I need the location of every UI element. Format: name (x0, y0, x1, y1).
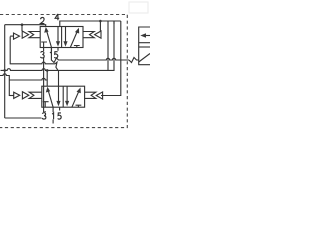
supply unit lever diagonal (139, 54, 150, 63)
wire left vertical L1 (4, 25, 6, 118)
port stubs valve V2 bottom (53, 107, 60, 110)
wire line C2 to valve2 left pilot y=75.5 (0, 74, 14, 96)
valve V2 right box diagonal arrow (72, 91, 79, 107)
node A junction dot (21, 23, 24, 26)
port label 2 valve V1 (40, 17, 44, 23)
wire line E bottom-left y=118 (5, 111, 45, 118)
wire V3 right drop to valve2 right pilot (101, 21, 121, 96)
port labels 3 1 5 valve V1 (40, 51, 57, 58)
faint ghost rectangle top right (129, 2, 148, 13)
valve V1 right box diagonal arrow (70, 31, 77, 47)
wire into valve V2 left pilot (9, 95, 13, 97)
wire riser valve2 port2 (46, 70, 48, 86)
wire into left pilot arrow (10, 35, 13, 37)
valve V1 right pilot flag (83, 32, 94, 38)
valve V1 blocked port 3 (41, 42, 47, 48)
wire valve V2 port1 stub down (52, 111, 54, 124)
valve V1 left pilot flag (29, 32, 40, 38)
wire valve1 exhaust port3 drop (43, 48, 45, 119)
wire V2 riser part of line C corner (113, 21, 115, 24)
wire V1 riser (107, 21, 109, 70)
wire line D branch to valve2 port2 node y=80 (9, 78, 47, 80)
valve V2 pilot line end arrow left (14, 92, 20, 98)
node C junction dot on line C riser (46, 69, 49, 72)
valve V2 body 5/2 (42, 86, 85, 107)
wire from node D down to valve1 right pilot (99, 21, 101, 31)
supply unit left arrow (144, 35, 150, 37)
valve V2 right box blocked port (76, 105, 82, 107)
wire stub from node A down to valve1 left pilot (21, 25, 23, 31)
valve V2 flow path 4-5 arrow (58, 86, 60, 102)
node B junction dot on line C (3, 69, 6, 72)
valve V2 left pilot flag (29, 92, 42, 98)
port labels 3 1 5 valve V2 (42, 113, 61, 120)
line break mark on line A (129, 58, 139, 63)
supply unit box right edge (139, 27, 150, 65)
valve V1 pilot line end arrow left (14, 33, 20, 39)
dashed enclosure border (0, 15, 127, 128)
node D junction dot on top bus (99, 20, 102, 23)
wire top bus y=21 from valve1 port4 (60, 21, 121, 27)
wire line A supply y=60 (51, 48, 129, 63)
valve V2 flow path 1-2 arrow (48, 91, 53, 108)
wire port2 v1 top-left bus y=24.7 (5, 25, 46, 27)
wire line C mid bus y=70.4 (1, 21, 115, 70)
valve V2 blocked port 3 (43, 102, 49, 108)
valve V1 left pilot triangle (22, 31, 28, 38)
port stubs valve V1 bottom (52, 48, 59, 51)
valve V1 body 5/2 (40, 27, 83, 48)
valve V1 right box blocked port (74, 46, 80, 48)
wire riser valve2 port4 (58, 70, 60, 86)
valve V1 right pilot triangle (95, 31, 101, 38)
valve V2 left pilot triangle (22, 92, 28, 99)
wire line B valve1 left pilot feed y=63.8 (10, 37, 58, 71)
valve V2 right pilot flag (85, 92, 96, 98)
port label 4 valve V1 (55, 14, 59, 20)
valve V1 flow path 4-5 arrow (57, 27, 59, 43)
valve V2 right box down arrow (66, 86, 68, 102)
valve V2 right pilot triangle (96, 92, 102, 99)
label mask valve V2 (42, 112, 63, 119)
label mask valve V1 (40, 51, 60, 58)
valve V1 right box down arrow (65, 27, 67, 43)
valve V1 flow path 1-2 arrow (47, 31, 52, 48)
